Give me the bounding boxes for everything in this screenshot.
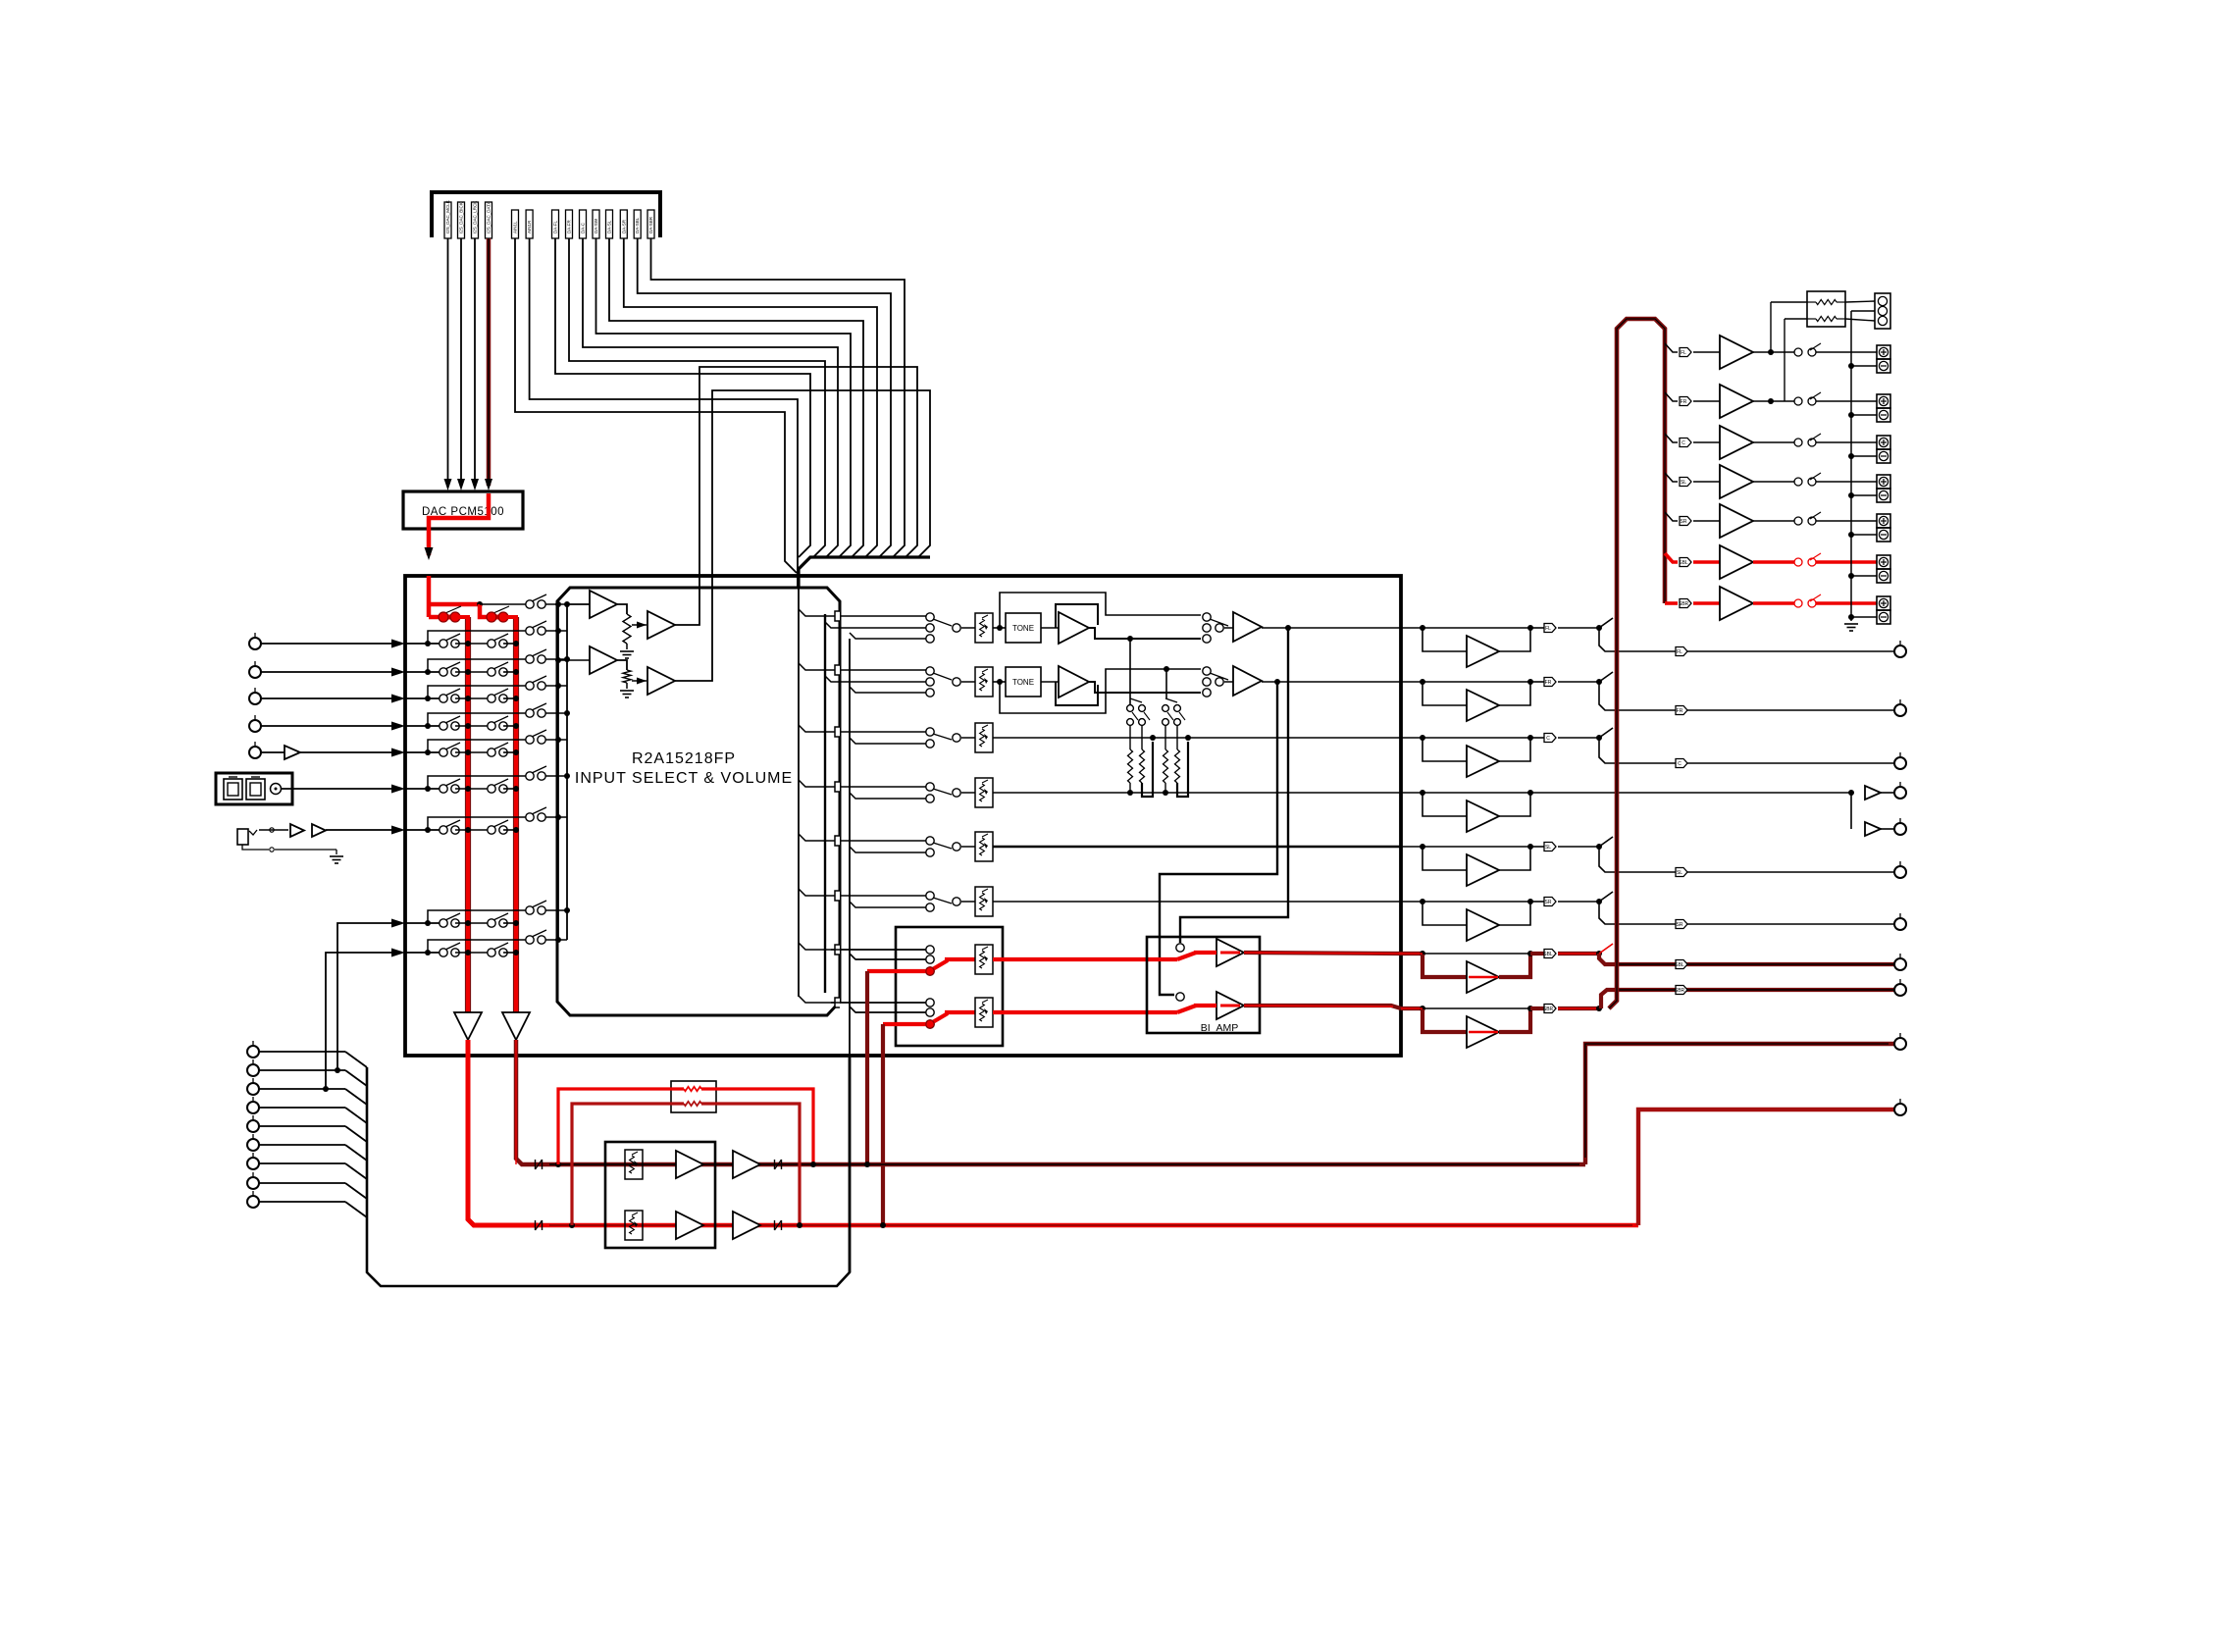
wire DAC output (highlighted) <box>429 493 489 555</box>
bead <box>535 1220 537 1230</box>
aux terminal <box>252 1153 254 1158</box>
block BI_AMP <box>1147 937 1260 1033</box>
wire merge to speaker bus <box>1599 837 1613 847</box>
wire <box>1423 627 1530 629</box>
wire <box>1041 627 1059 629</box>
speaker terminal - <box>1877 489 1890 502</box>
wire U link 1 <box>1142 742 1153 797</box>
input row wire <box>405 952 440 954</box>
headphone jack in <box>237 829 248 845</box>
wire <box>1816 601 1877 605</box>
wire jog <box>1599 738 1616 763</box>
switch biamp R <box>1176 993 1184 1001</box>
pre-out row SW <box>1401 792 1423 794</box>
pin tab <box>799 889 836 896</box>
IC DAC PCM5100 <box>403 491 523 529</box>
wire <box>1770 302 1772 352</box>
wire (highlighted core) <box>1469 976 1498 979</box>
volume attenuator <box>975 667 993 697</box>
op-amp out <box>1233 666 1262 696</box>
pin tab <box>799 996 836 1003</box>
wire <box>261 697 392 699</box>
wire rec select row <box>428 686 526 698</box>
net label <box>1680 478 1691 487</box>
wire A4 out riser <box>675 390 930 681</box>
wire rec select row <box>428 910 526 923</box>
wire SW pre-out <box>1530 792 1851 794</box>
op-amp A1 <box>590 591 617 618</box>
wire feed <box>840 840 926 842</box>
wire <box>261 725 392 727</box>
wire <box>1753 400 1794 402</box>
downmix network stub 2 <box>1165 669 1167 698</box>
net label <box>1680 439 1691 447</box>
wire <box>503 725 516 727</box>
wire merge to speaker bus <box>1599 618 1613 628</box>
wire <box>1558 737 1599 739</box>
wire to ground bus <box>1851 310 1875 312</box>
wire <box>259 1125 345 1127</box>
op-amp A4 <box>647 667 675 695</box>
resistor to ground <box>623 670 631 683</box>
input select switch <box>926 667 934 675</box>
ground <box>1844 623 1858 625</box>
pre-out row FL <box>1401 627 1423 629</box>
wire merge <box>345 1126 367 1142</box>
pin DA-FR <box>566 210 573 238</box>
aux terminal <box>252 1134 254 1139</box>
pin AIN1R <box>526 210 533 238</box>
svg-text:DA-FR: DA-FR <box>567 220 572 233</box>
op-amp phones L1 <box>676 1151 703 1178</box>
speaker row C <box>1665 434 1678 442</box>
wire <box>1423 846 1530 848</box>
svg-text:SBL: SBL <box>1675 962 1684 968</box>
wire <box>1693 560 1720 564</box>
wire <box>545 658 567 660</box>
svg-text:TONE: TONE <box>1012 678 1034 687</box>
aux terminal <box>252 1059 254 1064</box>
input select switch <box>926 613 934 621</box>
terminal SL <box>1899 861 1901 866</box>
wire <box>1816 400 1877 402</box>
wire <box>503 751 516 753</box>
resistors <box>1129 726 1131 749</box>
wire <box>617 660 627 670</box>
wire (highlighted core) <box>1469 1031 1498 1034</box>
volume attenuator <box>975 778 993 807</box>
speaker terminal - <box>1877 569 1890 583</box>
speaker row SBR <box>1665 601 1678 605</box>
net label FL <box>1676 647 1687 656</box>
power amp FR <box>1720 385 1753 418</box>
resistor to ground <box>623 614 631 644</box>
wire lower source twig <box>850 738 926 744</box>
wire biamp source L <box>1180 628 1288 943</box>
pin tab <box>799 943 836 950</box>
svg-text:SR: SR <box>1681 519 1687 525</box>
svg-text:BI_AMP: BI_AMP <box>1201 1022 1239 1034</box>
relay contact <box>1794 599 1802 607</box>
svg-text:DA-SBL: DA-SBL <box>635 217 640 233</box>
svg-text:SR: SR <box>1545 900 1552 905</box>
block MAIN BOARD box <box>405 576 1401 1056</box>
terminal SBL <box>1899 954 1901 958</box>
switch contacts <box>1130 698 1142 702</box>
speaker terminal + <box>1877 555 1890 569</box>
wire <box>261 671 392 673</box>
wire <box>1816 520 1877 522</box>
bead <box>774 1160 776 1169</box>
switch to R bus <box>493 820 508 827</box>
IC R2A15218FP INPUT SELECT & VOLUME <box>557 588 840 1015</box>
svg-text:DA-C: DA-C <box>581 222 586 233</box>
wire <box>455 922 488 924</box>
wire to gnd bus <box>1851 534 1877 536</box>
pin DA-SL <box>606 210 613 238</box>
relay contact <box>1794 558 1802 566</box>
net label SR <box>1530 901 1544 903</box>
volume attenuator <box>625 1150 643 1179</box>
input select switch <box>926 783 934 791</box>
TONE block <box>1006 667 1041 697</box>
wire merge <box>345 1052 367 1067</box>
wire <box>503 829 516 831</box>
svg-text:I2S_DAC_LRCK: I2S_DAC_LRCK <box>473 201 478 233</box>
wire merge <box>345 1183 367 1199</box>
wire <box>1693 601 1720 605</box>
wire <box>1753 560 1794 564</box>
switch to L bus <box>445 689 460 696</box>
volume attenuator <box>975 832 993 861</box>
switch to L bus <box>445 820 460 827</box>
wire rec select row <box>428 713 526 726</box>
wire phones R out (highlighted) <box>1638 1110 1894 1225</box>
op-amp tone <box>1059 666 1089 697</box>
wire <box>993 792 1401 794</box>
wire <box>1693 481 1720 483</box>
wire <box>503 952 516 954</box>
wire <box>1558 1007 1599 1010</box>
wire <box>545 739 567 741</box>
wire <box>259 1107 345 1109</box>
wire <box>993 627 1006 629</box>
wire <box>1558 627 1599 629</box>
wire <box>1262 681 1401 683</box>
svg-text:DA-SBR: DA-SBR <box>648 216 653 233</box>
wire <box>1041 681 1059 683</box>
aux terminal <box>252 1115 254 1120</box>
wire merge to speaker bus <box>1599 672 1613 682</box>
bus speaker feed (highlighted) <box>1609 319 1665 1008</box>
wire <box>259 1201 345 1203</box>
svg-text:I2S_DAC_BICK: I2S_DAC_BICK <box>459 202 464 233</box>
op-amp A3 <box>590 646 617 674</box>
wire jog <box>1599 628 1616 651</box>
volume buffer L (down) <box>454 1012 482 1040</box>
switch to R bus <box>493 662 508 669</box>
pin I2S_DAC_DATA <box>486 202 492 238</box>
power amp SR <box>1720 504 1753 538</box>
switch to L bus <box>445 743 460 749</box>
input jack <box>254 715 256 720</box>
bus T2 vertical <box>566 604 568 940</box>
aux terminal <box>252 1078 254 1083</box>
svg-text:SBR: SBR <box>1543 1007 1554 1012</box>
svg-text:SBR: SBR <box>1679 601 1689 607</box>
net label FL <box>1530 627 1544 629</box>
svg-text:SBL: SBL <box>1679 560 1688 566</box>
wire <box>455 643 488 645</box>
wire rec select row <box>428 776 526 789</box>
relay contact <box>1794 478 1802 486</box>
volume attenuator <box>975 945 993 974</box>
wire to gnd bus <box>1851 365 1877 367</box>
pin tab <box>799 834 836 841</box>
switch to R bus <box>493 779 508 786</box>
wire <box>993 681 1006 683</box>
op-amp buffer FR <box>1467 690 1499 721</box>
terminal SW1 <box>1899 782 1901 787</box>
switch biamp L <box>1176 944 1184 952</box>
bus analog-in merge <box>799 557 930 588</box>
input jack <box>254 633 256 638</box>
wire <box>326 829 392 831</box>
pin DA-SBL <box>634 210 641 238</box>
op-amp biamp L <box>1216 939 1244 966</box>
speaker terminal - <box>1877 610 1890 624</box>
svg-text:DA-SW: DA-SW <box>594 218 598 233</box>
net label SR <box>1676 920 1687 929</box>
switch to L bus <box>445 943 460 950</box>
tone bypass loop 1 <box>1000 593 1201 628</box>
speaker terminal - <box>1877 528 1890 542</box>
relay contact <box>1794 439 1802 446</box>
wire <box>259 1182 345 1184</box>
wire <box>1499 1008 1530 1032</box>
wire <box>259 1069 345 1071</box>
wire (highlighted) <box>1244 1006 1401 1008</box>
wire <box>993 846 1401 849</box>
optical input module <box>216 773 292 804</box>
wire merge to speaker bus <box>1599 728 1613 738</box>
svg-text:TONE: TONE <box>1012 624 1034 633</box>
net label <box>1680 517 1691 526</box>
feedback loop R (highlighted) <box>572 1104 684 1225</box>
wire <box>626 644 628 649</box>
wire <box>1753 601 1794 605</box>
wire R bus to headphone amp (highlighted) <box>516 1040 539 1164</box>
wire I2S to DAC <box>447 238 449 486</box>
wire I2S_DAC_DATA (highlighted) <box>487 238 492 486</box>
net label C <box>1530 737 1544 739</box>
input row wire <box>405 751 440 753</box>
switch to rec bus <box>532 730 546 737</box>
wire <box>503 788 516 790</box>
connector J1 bracket <box>432 192 660 237</box>
wire L bus to headphone amp (highlighted) <box>468 1040 539 1225</box>
switch to R bus <box>493 743 508 749</box>
wire <box>1845 301 1875 302</box>
wire <box>1499 628 1530 651</box>
wire (highlighted) <box>993 1010 1177 1014</box>
volume attenuator <box>975 887 993 916</box>
wire phones L out (highlighted) <box>1585 1044 1894 1164</box>
terminal C <box>1899 752 1901 757</box>
wire (highlighted) <box>993 957 1177 961</box>
bus T1 vertical <box>557 604 559 940</box>
pin DA-SBR <box>647 210 654 238</box>
wire middle source twig <box>825 676 926 682</box>
ground <box>620 650 634 652</box>
switch to L bus <box>445 716 460 723</box>
wire merge to speaker bus <box>1599 944 1613 954</box>
feedback loop <box>1056 604 1098 628</box>
net label FR <box>1530 681 1544 683</box>
wire <box>1753 520 1794 522</box>
aux terminal <box>252 1172 254 1177</box>
input row wire <box>405 725 440 727</box>
switch to rec bus <box>532 901 546 907</box>
svg-text:I2S_DAC_MCLK: I2S_DAC_MCLK <box>445 200 450 233</box>
input row wire <box>405 829 440 831</box>
switch to rec bus <box>532 807 546 814</box>
speaker terminal - <box>1877 449 1890 463</box>
wire source (highlighted) <box>867 969 926 973</box>
wire <box>1753 441 1794 443</box>
op-amp out <box>1233 612 1262 642</box>
wire <box>282 788 392 790</box>
wire rec in 1 <box>337 923 392 1070</box>
feedback resistor box <box>671 1081 716 1112</box>
pre-out row SBL <box>1401 952 1423 955</box>
input jack <box>254 661 256 666</box>
wire <box>259 1088 345 1090</box>
net label C <box>1676 759 1687 768</box>
wire aux rail <box>849 1058 852 1272</box>
wire <box>259 1144 345 1146</box>
wire <box>259 1162 345 1164</box>
switch to L bus <box>445 662 460 669</box>
wire <box>545 603 590 605</box>
wire <box>545 909 567 911</box>
op-amp A2 <box>647 611 675 639</box>
wire merge <box>345 1070 367 1086</box>
svg-text:I2S_DAC_DATA: I2S_DAC_DATA <box>487 201 492 233</box>
wire <box>1129 783 1131 793</box>
wire feed <box>840 669 926 671</box>
closed lever (highlighted) <box>931 1013 948 1023</box>
wire phones R strip (highlighted) <box>539 1223 1638 1228</box>
wire <box>455 829 488 831</box>
block phones amp <box>605 1142 715 1248</box>
switch to rec bus <box>532 703 546 710</box>
power amp FL <box>1720 336 1753 369</box>
wire <box>1785 318 1807 320</box>
aux terminal <box>252 1191 254 1196</box>
net label SBR <box>1530 1007 1544 1010</box>
pin DA-SR <box>620 210 627 238</box>
wire <box>1693 351 1720 353</box>
input select switch <box>926 728 934 736</box>
speaker terminal + <box>1877 436 1890 449</box>
terminal phones R <box>1899 1099 1901 1104</box>
speaker row FL <box>1665 343 1678 352</box>
feedback loop <box>1056 682 1098 705</box>
pin DA-FL <box>552 210 559 238</box>
wire jog <box>1601 990 1616 1008</box>
wire <box>626 683 628 689</box>
svg-text:SR: SR <box>1677 922 1683 928</box>
wire <box>1423 792 1530 794</box>
wire DSP analog out <box>569 238 825 557</box>
svg-text:C: C <box>1678 761 1682 767</box>
svg-text:SL: SL <box>1677 870 1682 876</box>
closed lever (highlighted) <box>931 960 948 970</box>
speaker row SR <box>1665 512 1678 521</box>
pin I2S_DAC_BICK <box>458 202 465 238</box>
wire DSP analog out <box>583 238 838 557</box>
wire <box>1262 627 1401 629</box>
wire to buffer A2 <box>632 624 647 626</box>
switch DAC-R (closed, red) <box>492 615 503 620</box>
wire column bus A <box>824 614 826 993</box>
op-amp biamp R <box>1216 992 1244 1019</box>
wire jog <box>1599 954 1616 964</box>
svg-text:AIN1L: AIN1L <box>513 221 518 233</box>
pre-out row SBR <box>1401 1007 1423 1010</box>
wire <box>1693 520 1720 522</box>
resistor network <box>1807 291 1845 327</box>
wire to gnd bus <box>1851 494 1877 496</box>
wire R volume bus (highlighted) <box>513 617 519 1015</box>
speaker terminal - <box>1877 408 1890 422</box>
op-amp buffer FL <box>1467 636 1499 667</box>
wire to gnd bus <box>1851 575 1877 577</box>
block phones select box <box>896 927 1003 1046</box>
wire <box>455 751 488 753</box>
wire to L bus (highlighted) <box>429 615 440 620</box>
pin tab <box>799 780 836 787</box>
wire <box>545 775 567 777</box>
wire lower source twig <box>850 847 926 852</box>
op-amp buffer C <box>1467 746 1499 777</box>
svg-text:FL: FL <box>1681 350 1686 356</box>
input row wire <box>405 697 440 699</box>
svg-text:FR: FR <box>1545 680 1552 686</box>
wire (highlighted) <box>945 957 975 961</box>
wire rec select row <box>428 940 526 953</box>
wire feed <box>840 949 926 951</box>
switch phones R sources <box>831 1002 926 1004</box>
wire lower source twig <box>850 633 926 639</box>
wire DSP analog out <box>609 238 863 557</box>
wire AIN1R <box>530 238 798 588</box>
wire <box>617 604 627 614</box>
wire lower source twig <box>850 954 926 959</box>
wire <box>503 671 516 673</box>
op-amp phones R1 <box>676 1212 703 1239</box>
input select switch <box>926 892 934 900</box>
terminal SR <box>1899 913 1901 918</box>
pin I2S_DAC_LRCK <box>472 202 479 238</box>
wire pre-out SL <box>1616 871 1894 873</box>
wire pre-out SBL <box>1616 962 1894 966</box>
wire <box>261 751 392 753</box>
speaker terminal + <box>1877 394 1890 408</box>
tone bypass loop 2 <box>1000 669 1201 713</box>
wire jog <box>1599 902 1616 924</box>
